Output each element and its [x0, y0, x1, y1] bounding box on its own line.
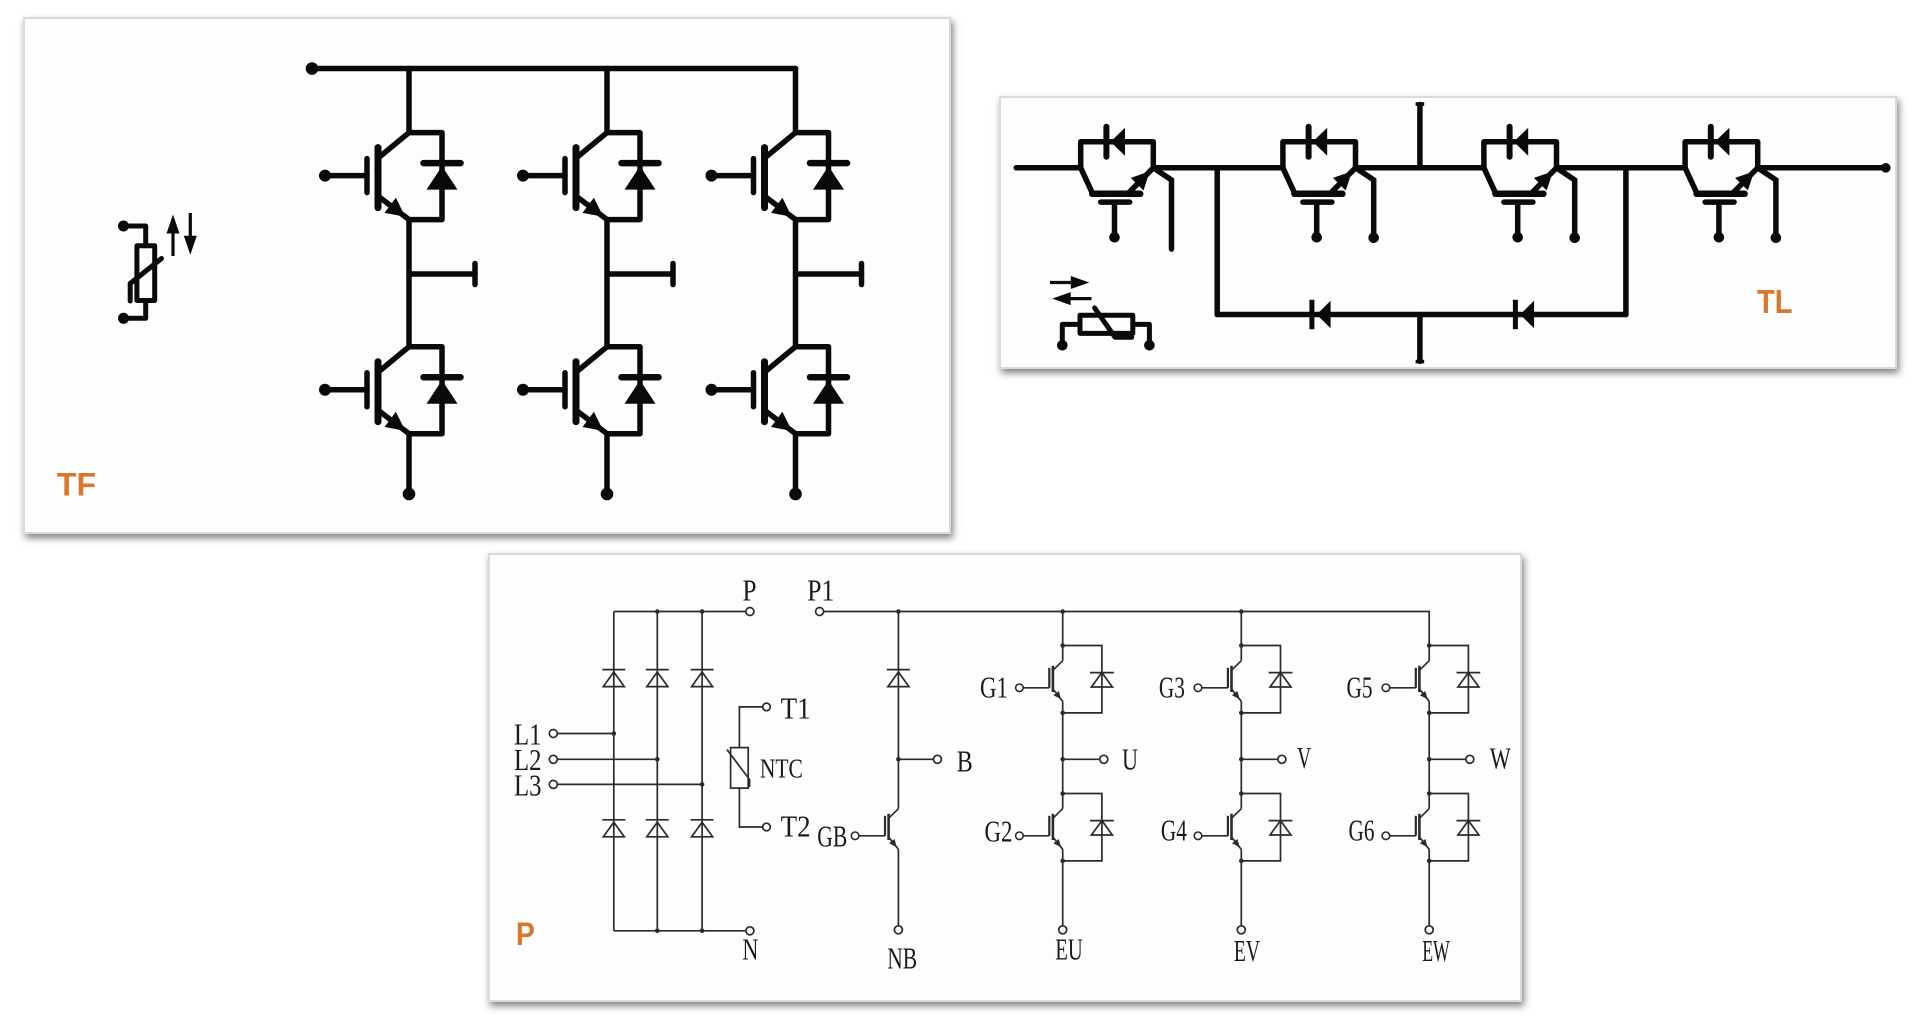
rectifier diode D5	[646, 820, 669, 837]
rail right terminal dot	[1881, 163, 1891, 173]
wire Q3 emitter to Q4 collector	[604, 220, 610, 347]
phase W column	[1425, 713, 1474, 934]
IGBT T1 with diode	[1081, 127, 1154, 243]
T1 aux emitter lead	[1153, 168, 1171, 249]
phase 2 output stub	[607, 271, 673, 277]
IGBT Q6 with diode	[706, 347, 848, 434]
left drop wire	[1214, 168, 1220, 315]
IGBT Q4 with diode	[517, 347, 659, 434]
phase leg 1: wire rail to Q1	[406, 69, 412, 133]
diode of G1	[1060, 643, 1113, 715]
svg-text:TL: TL	[1757, 284, 1793, 321]
diode of G3	[1239, 643, 1292, 715]
wire Q1 emitter to Q2 collector	[406, 220, 412, 347]
IGBT T2 with diode	[1283, 127, 1356, 243]
bottom stub tick	[1416, 360, 1425, 364]
IGBT G2	[1016, 794, 1063, 861]
phase 3 bottom terminal dot	[789, 488, 802, 501]
phase 1 output stub	[409, 271, 475, 277]
phase 3 output tick	[859, 264, 865, 285]
svg-text:GB: GB	[817, 819, 847, 854]
wire Q5 emitter to Q6 collector	[793, 220, 799, 347]
svg-text:P1: P1	[807, 572, 834, 607]
IGBT T3 with diode	[1484, 127, 1557, 243]
svg-text:EU: EU	[1055, 931, 1083, 966]
IGBT Q5 with diode	[706, 133, 848, 220]
main rail	[1016, 165, 1080, 171]
svg-text:G4: G4	[1161, 813, 1187, 848]
svg-text:G3: G3	[1159, 670, 1185, 705]
right drop wire	[1623, 168, 1629, 315]
T3 aux emitter lead	[1557, 168, 1580, 243]
svg-text:P: P	[516, 916, 535, 952]
IGBT Q3 with diode	[517, 133, 659, 220]
input L3 lead	[557, 783, 702, 785]
rectifier vertical 1	[613, 612, 615, 931]
terminal P1	[816, 608, 824, 616]
svg-text:TF: TF	[57, 467, 96, 503]
svg-text:G6: G6	[1349, 813, 1375, 848]
svg-text:V: V	[1297, 740, 1311, 775]
svg-text:L3: L3	[514, 767, 542, 802]
svg-text:U: U	[1122, 742, 1138, 777]
svg-text:G1: G1	[980, 670, 1008, 705]
svg-text:P: P	[743, 573, 757, 608]
diode of G4	[1239, 791, 1292, 863]
panel P	[488, 553, 1522, 1002]
IGBT Q2 with diode	[319, 347, 461, 434]
bottom bus wire	[1217, 312, 1626, 318]
rectifier diode D3	[691, 670, 714, 687]
svg-text:EW: EW	[1422, 933, 1450, 968]
IGBT G1	[1016, 646, 1063, 713]
svg-text:NTC: NTC	[760, 753, 803, 783]
rectifier diode D2	[646, 670, 669, 687]
input L2 lead	[557, 758, 657, 760]
thermistor RT2	[1057, 308, 1155, 351]
rectifier diode D1	[602, 670, 625, 687]
IGBT G6	[1382, 794, 1429, 861]
rectifier diode D4	[602, 820, 625, 837]
wire Q6 emitter down	[793, 434, 799, 493]
bottom center stub	[1417, 315, 1423, 362]
wire Q4 emitter down	[604, 434, 610, 493]
wire Q2 emitter down	[406, 434, 412, 493]
phase 1 bottom terminal dot	[403, 488, 416, 501]
terminal P	[746, 608, 754, 616]
svg-text:B: B	[957, 743, 973, 778]
phase leg 2: wire rail to Q3	[604, 69, 610, 133]
svg-text:G2: G2	[985, 814, 1013, 849]
terminal N	[746, 927, 754, 935]
brake IGBT GB	[851, 794, 898, 861]
phase 2 bottom terminal dot	[601, 488, 614, 501]
phase 2 output tick	[670, 264, 676, 285]
rail terminal dot	[306, 62, 319, 75]
rectifier vertical 3	[701, 612, 703, 931]
T2 aux emitter lead	[1356, 168, 1379, 243]
svg-text:G5: G5	[1347, 670, 1373, 705]
IGBT Q1 with diode	[319, 133, 461, 220]
panel TL	[999, 96, 1897, 369]
rectifier top rail to P	[614, 611, 746, 613]
input L1 lead	[557, 733, 614, 735]
current arrows (right/left)	[1050, 276, 1092, 305]
junction dots bottom rail	[655, 929, 660, 934]
svg-text:EV: EV	[1234, 933, 1261, 968]
junction dots top rail	[655, 609, 660, 614]
rectifier diode D6	[691, 820, 714, 837]
phase U column	[1059, 609, 1108, 934]
top stub tick	[1416, 102, 1425, 106]
brake diode	[887, 670, 910, 687]
current arrows (up/down)	[167, 213, 197, 256]
labels	[514, 572, 1511, 975]
svg-text:NB: NB	[887, 941, 917, 976]
P1 rail wire	[824, 612, 1430, 646]
svg-text:W: W	[1490, 741, 1512, 776]
diode of G6	[1427, 791, 1480, 863]
phase leg 3: wire rail to Q5	[793, 69, 799, 133]
phase 1 output tick	[472, 264, 478, 285]
bus diode D5	[1312, 300, 1331, 329]
brake chopper branch	[894, 609, 941, 934]
IGBT G5	[1382, 646, 1429, 713]
diode of G5	[1427, 643, 1480, 715]
panel TF	[23, 17, 951, 534]
phase V column	[1237, 609, 1286, 934]
thermistor RT1	[118, 221, 162, 324]
diode of G2	[1060, 791, 1113, 863]
svg-text:T2: T2	[781, 808, 811, 843]
IGBT G3	[1194, 646, 1241, 713]
top center stub	[1417, 105, 1423, 168]
rectifier vertical 2	[656, 612, 658, 931]
IGBT T4 with diode	[1685, 127, 1758, 243]
svg-text:T1: T1	[781, 691, 811, 726]
rectifier bottom rail to N	[614, 930, 746, 932]
NTC thermistor	[727, 703, 770, 831]
T4 aux emitter lead	[1758, 168, 1782, 243]
phase 3 output stub	[796, 271, 862, 277]
IGBT G4	[1194, 794, 1241, 861]
svg-text:N: N	[742, 932, 758, 967]
bus diode D6	[1515, 300, 1534, 329]
DC+ rail	[312, 66, 796, 72]
